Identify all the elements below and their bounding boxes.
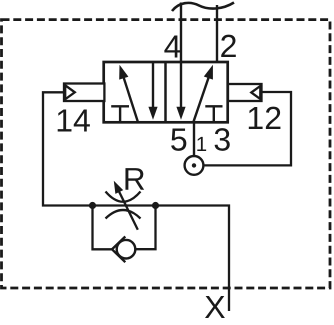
right chamber diagonal arrow 1->2 bbox=[193, 65, 213, 123]
pilot 12 box bbox=[228, 84, 262, 101]
valve chamber divider bbox=[164, 62, 167, 122]
wire pilot14 to throttle line bbox=[43, 92, 93, 205]
throttle R lower arc bbox=[106, 210, 141, 219]
svg-text:1: 1 bbox=[196, 133, 207, 156]
pilot 14 box bbox=[64, 84, 104, 102]
port 1 line bbox=[193, 122, 195, 156]
check valve ball circle bbox=[117, 240, 136, 259]
label R bbox=[123, 161, 146, 197]
throttle R upper arc bbox=[106, 192, 141, 202]
svg-text:12: 12 bbox=[246, 100, 282, 136]
left chamber blocked port T (port 5 pos) bbox=[111, 106, 129, 121]
svg-text:2: 2 bbox=[220, 28, 238, 64]
left chamber diagonal arrow 1->4 bbox=[119, 65, 138, 123]
port 2 line bbox=[216, 5, 218, 62]
svg-text:5: 5 bbox=[170, 122, 188, 158]
check valve bypass right riser bbox=[135, 206, 155, 250]
svg-text:14: 14 bbox=[55, 102, 91, 138]
break wave symbol (lines continue) bbox=[172, 3, 234, 12]
pilot 14 triangle bbox=[65, 85, 75, 99]
wire circle-dot to pilot 12 bbox=[203, 92, 291, 165]
port 1 circle-dot symbol bbox=[185, 156, 204, 175]
valve V1 body (5/2 directional valve) bbox=[104, 62, 228, 122]
right chamber down arrow 4->5 bbox=[176, 62, 185, 120]
throttle adjustment arrow bbox=[114, 181, 138, 230]
svg-text:4: 4 bbox=[164, 28, 182, 64]
check valve seat chevron bbox=[112, 237, 125, 263]
right chamber blocked port T (port 3 pos) bbox=[205, 106, 222, 121]
pilot 12 triangle bbox=[251, 86, 260, 99]
check valve bypass left riser bbox=[93, 206, 112, 250]
svg-text:R: R bbox=[123, 161, 146, 197]
svg-text:X: X bbox=[204, 289, 225, 325]
left chamber down arrow 2->3 bbox=[148, 62, 157, 120]
svg-text:3: 3 bbox=[213, 122, 231, 158]
wire throttle main line to X bbox=[93, 206, 230, 312]
junction dot right bbox=[152, 202, 159, 209]
port 4 line bbox=[180, 3, 182, 63]
junction dot left bbox=[89, 202, 96, 209]
